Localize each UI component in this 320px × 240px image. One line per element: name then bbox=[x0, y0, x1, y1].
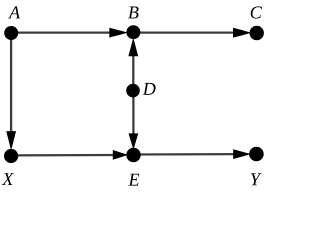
arrowhead X->E bbox=[113, 150, 128, 160]
node Y bbox=[249, 147, 264, 162]
label E bbox=[128, 174, 139, 186]
label Y bbox=[251, 173, 262, 185]
label A bbox=[8, 6, 20, 18]
arrowhead D->B bbox=[128, 38, 138, 56]
wire D to B bbox=[132, 52, 134, 91]
arrowhead A->B bbox=[109, 28, 128, 38]
wire A to B bbox=[11, 31, 114, 33]
node D bbox=[126, 84, 140, 98]
arrowhead D->E bbox=[129, 133, 139, 149]
label C bbox=[251, 6, 262, 18]
node E bbox=[126, 148, 140, 162]
wire A to X bbox=[10, 33, 12, 137]
wire B to C bbox=[133, 31, 238, 33]
wire D to E bbox=[132, 91, 134, 136]
label D bbox=[143, 83, 156, 95]
node A bbox=[4, 26, 18, 40]
arrowhead B->C bbox=[233, 28, 251, 38]
label X bbox=[2, 173, 14, 185]
label B bbox=[128, 7, 139, 19]
arrowhead A->X bbox=[6, 131, 16, 150]
wire E to Y bbox=[134, 153, 239, 156]
node B bbox=[126, 25, 140, 39]
node X bbox=[4, 149, 18, 163]
arrowhead E->Y bbox=[233, 149, 251, 159]
wire X to E bbox=[11, 154, 116, 157]
node C bbox=[250, 26, 264, 40]
